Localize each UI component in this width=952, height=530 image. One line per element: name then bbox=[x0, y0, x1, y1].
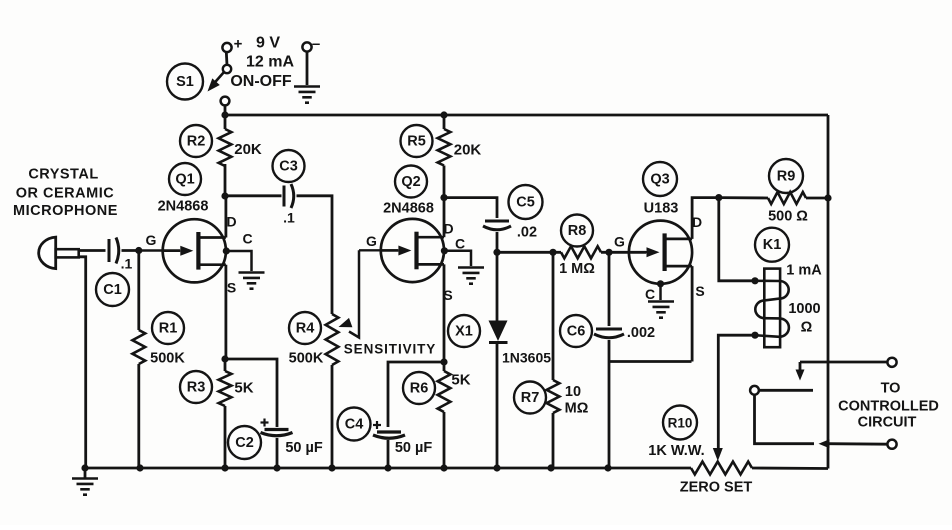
svg-text:CONTROLLED: CONTROLLED bbox=[838, 399, 939, 415]
resistor R1 bbox=[132, 251, 145, 469]
node junction R9 rail bbox=[824, 194, 831, 201]
svg-text:5K: 5K bbox=[451, 372, 470, 389]
transistor Q1 bbox=[163, 219, 226, 282]
svg-text:C: C bbox=[455, 236, 465, 252]
svg-text:ON-OFF: ON-OFF bbox=[230, 73, 292, 90]
wire detector node to X1 bbox=[496, 252, 499, 321]
relay K1 core bbox=[764, 269, 780, 348]
wire fixed contact to lower terminal bbox=[755, 395, 815, 444]
wire Q1 source bbox=[224, 265, 227, 359]
wire Q1 drain bbox=[224, 196, 227, 238]
svg-text:CRYSTAL: CRYSTAL bbox=[28, 167, 98, 183]
label C1 bbox=[96, 273, 129, 306]
resistor R3 bbox=[219, 359, 232, 468]
svg-text:.002: .002 bbox=[627, 325, 655, 341]
label K1 bbox=[755, 228, 789, 262]
svg-text:U183: U183 bbox=[644, 201, 679, 217]
node Q1 drain junction bbox=[221, 192, 228, 199]
node junction S1-rail bbox=[221, 111, 228, 118]
wire Q3 source bbox=[691, 266, 694, 361]
wire C6 to rail bbox=[608, 340, 611, 468]
node output terminal lower bbox=[887, 440, 896, 449]
relay lower contact arrow bbox=[819, 439, 830, 448]
label C5 bbox=[509, 185, 543, 219]
wire R9 node to K1 coil top bbox=[719, 198, 753, 281]
svg-text:R8: R8 bbox=[568, 223, 587, 239]
svg-text:C4: C4 bbox=[345, 417, 364, 433]
wire lower terminal lead bbox=[828, 442, 889, 445]
wiper R10 arrow bbox=[713, 448, 723, 461]
svg-text:–: – bbox=[312, 36, 320, 53]
wire - terminal to ground bbox=[306, 52, 309, 85]
label R5 bbox=[401, 125, 433, 157]
relay armature top contact bbox=[796, 362, 889, 381]
node rail junction x332 bbox=[328, 464, 335, 471]
capacitor C1 bbox=[109, 238, 119, 264]
wire C4 to rail bbox=[387, 440, 390, 468]
svg-text:.1: .1 bbox=[283, 210, 295, 226]
svg-text:1 MΩ: 1 MΩ bbox=[559, 261, 595, 277]
wire Q2 source bbox=[443, 264, 446, 362]
svg-text:TO: TO bbox=[881, 381, 901, 397]
label R6 bbox=[403, 372, 435, 404]
wire C6 top bbox=[608, 252, 611, 326]
wire C1 to gate node bbox=[122, 249, 143, 252]
svg-text:5K: 5K bbox=[234, 380, 253, 397]
label Q3 bbox=[643, 162, 677, 196]
wire right-side vertical rail bbox=[827, 115, 830, 469]
label R9 bbox=[769, 159, 803, 193]
svg-text:2N4868: 2N4868 bbox=[383, 201, 434, 217]
svg-text:C: C bbox=[242, 231, 252, 247]
svg-text:G: G bbox=[366, 233, 377, 249]
svg-text:R6: R6 bbox=[410, 381, 429, 397]
relay K1 coil bbox=[755, 281, 789, 337]
node junction Q1 source R3 bbox=[221, 355, 228, 362]
wiper R4 bbox=[339, 250, 360, 337]
svg-text:20K: 20K bbox=[234, 141, 262, 158]
resistor R6 bbox=[438, 362, 451, 468]
node K1 coil top bbox=[751, 277, 758, 284]
svg-text:R3: R3 bbox=[187, 380, 206, 396]
svg-text:R2: R2 bbox=[187, 134, 206, 150]
transistor Q3 bbox=[629, 221, 692, 284]
svg-text:500K: 500K bbox=[150, 351, 185, 367]
wire bottom ground rail left section bbox=[85, 467, 691, 470]
svg-text:C: C bbox=[645, 286, 655, 302]
node - battery terminal bbox=[302, 42, 311, 51]
label R8 bbox=[561, 215, 593, 247]
svg-text:+: + bbox=[234, 36, 243, 53]
node rail junction x140 bbox=[136, 464, 143, 471]
svg-text:Q2: Q2 bbox=[401, 174, 420, 190]
node junction C6 top bbox=[605, 249, 612, 256]
node + battery terminal bbox=[222, 43, 231, 52]
svg-text:Ω: Ω bbox=[801, 320, 813, 336]
svg-text:Q3: Q3 bbox=[650, 172, 669, 188]
resistor R5 bbox=[438, 115, 451, 198]
wire top supply rail bbox=[225, 114, 828, 117]
wire C5 to detector node bbox=[496, 232, 499, 252]
svg-text:12 mA: 12 mA bbox=[246, 54, 294, 71]
ground battery negative bbox=[294, 87, 320, 103]
wire R3 node to C2 bbox=[225, 359, 277, 427]
capacitor C3 bbox=[284, 184, 294, 208]
relay fixed contact bbox=[750, 386, 813, 395]
wire R9 right lead bbox=[806, 197, 828, 200]
node junction R7 top bbox=[549, 249, 556, 256]
capacitor C2 bbox=[261, 419, 293, 436]
label R3 bbox=[180, 371, 212, 403]
svg-text:9 V: 9 V bbox=[256, 35, 280, 52]
resistor R8 bbox=[561, 246, 601, 258]
wire mic to C1 bbox=[79, 249, 106, 252]
wire gate node to Q1 bbox=[139, 249, 180, 251]
svg-text:S1: S1 bbox=[176, 74, 194, 90]
svg-text:C2: C2 bbox=[235, 435, 254, 451]
wire detector node to R8 bbox=[497, 251, 561, 254]
svg-text:MΩ: MΩ bbox=[565, 401, 589, 417]
node Q2 case bbox=[441, 247, 448, 254]
wire C6 to Q3 source bbox=[609, 360, 692, 363]
node junction rail R5 bbox=[440, 111, 447, 118]
svg-text:20K: 20K bbox=[454, 142, 482, 159]
wire R8 to Q3 gate bbox=[601, 251, 646, 254]
label S1 bbox=[167, 64, 203, 100]
ground main bbox=[72, 468, 98, 495]
label R1 bbox=[152, 312, 184, 344]
wire bottom rail right of R10 bbox=[752, 467, 828, 470]
node rail junction x225 bbox=[221, 464, 228, 471]
transistor Q2 bbox=[381, 219, 444, 282]
switch S1 bbox=[208, 52, 232, 115]
label Q2 bbox=[395, 166, 427, 198]
svg-text:S: S bbox=[227, 280, 236, 296]
ground Q3 case bbox=[648, 302, 674, 318]
svg-text:CIRCUIT: CIRCUIT bbox=[858, 415, 917, 431]
wire Q1 case to ground bbox=[226, 251, 251, 271]
svg-text:X1: X1 bbox=[455, 324, 473, 340]
svg-text:.02: .02 bbox=[517, 225, 537, 241]
svg-text:OR CERAMIC: OR CERAMIC bbox=[16, 186, 114, 202]
svg-text:G: G bbox=[614, 234, 625, 250]
wire Q3 case to ground bbox=[659, 284, 662, 300]
node rail junction x444 bbox=[440, 464, 447, 471]
resistor R9 bbox=[768, 192, 806, 204]
resistor R2 bbox=[219, 115, 232, 196]
label X1 bbox=[448, 315, 480, 347]
label R10 bbox=[663, 406, 697, 440]
wire C3 to R4 bbox=[297, 196, 333, 314]
capacitor C4 bbox=[373, 421, 405, 438]
svg-text:10: 10 bbox=[565, 384, 581, 400]
svg-text:R4: R4 bbox=[296, 321, 315, 337]
capacitor C6 bbox=[594, 329, 624, 338]
label C6 bbox=[560, 315, 592, 347]
node rail junction x551 bbox=[547, 464, 554, 471]
capacitor C5 bbox=[483, 221, 511, 230]
node rail junction x608 bbox=[604, 464, 611, 471]
wire Q2 drain to C5 bbox=[444, 198, 497, 218]
node rail junction x497 bbox=[493, 464, 500, 471]
svg-text:.1: .1 bbox=[121, 256, 133, 272]
label C4 bbox=[338, 408, 371, 441]
ground Q1 case bbox=[239, 273, 265, 289]
svg-text:C3: C3 bbox=[279, 159, 298, 175]
wire Q3 drain bbox=[692, 198, 719, 239]
svg-text:500K: 500K bbox=[289, 351, 324, 367]
resistor R10 bbox=[691, 462, 752, 475]
node K1 coil bottom bbox=[751, 332, 758, 339]
node junction R9 left bbox=[715, 194, 722, 201]
wire C2 to rail bbox=[276, 438, 279, 468]
ground Q2 case bbox=[458, 268, 484, 284]
microphone bbox=[39, 237, 79, 269]
resistor R7 bbox=[547, 252, 560, 468]
svg-text:50 µF: 50 µF bbox=[395, 440, 433, 456]
label R7 bbox=[514, 382, 546, 414]
svg-text:R9: R9 bbox=[777, 169, 796, 185]
wire Q2 case to ground bbox=[444, 251, 471, 266]
node junction Q2 source R6 bbox=[440, 358, 447, 365]
svg-text:Q1: Q1 bbox=[175, 172, 194, 188]
svg-text:S: S bbox=[695, 283, 704, 299]
svg-text:2N4868: 2N4868 bbox=[158, 199, 209, 215]
svg-text:1N3605: 1N3605 bbox=[502, 350, 551, 366]
node detector junction bbox=[493, 249, 500, 256]
diode X1 bbox=[489, 321, 508, 343]
resistor R4 bbox=[326, 314, 339, 468]
svg-text:SENSITIVITY: SENSITIVITY bbox=[344, 342, 436, 357]
svg-text:50 µF: 50 µF bbox=[285, 440, 323, 456]
svg-text:500 Ω: 500 Ω bbox=[768, 209, 808, 225]
label R4 bbox=[289, 312, 321, 344]
wire X1 to rail bbox=[496, 343, 499, 469]
svg-text:ZERO SET: ZERO SET bbox=[680, 480, 753, 496]
svg-text:1K W.W.: 1K W.W. bbox=[648, 443, 704, 459]
node Q2 drain junction bbox=[440, 194, 447, 201]
label C3 bbox=[273, 150, 305, 182]
svg-text:1 mA: 1 mA bbox=[786, 263, 822, 279]
svg-text:R10: R10 bbox=[668, 416, 693, 431]
node rail junction x277 bbox=[273, 464, 280, 471]
svg-text:C1: C1 bbox=[103, 282, 122, 298]
wire K1 coil bottom to R10 wiper bbox=[718, 335, 755, 449]
svg-text:G: G bbox=[146, 232, 157, 248]
node output terminal upper bbox=[887, 358, 896, 367]
node gate Q1 junction bbox=[135, 247, 142, 254]
node rail junction x85 bbox=[81, 464, 88, 471]
svg-text:C5: C5 bbox=[516, 195, 535, 211]
node rail junction x388 bbox=[384, 464, 391, 471]
label Q1 bbox=[169, 163, 201, 195]
svg-text:K1: K1 bbox=[763, 237, 782, 253]
node Q3 case bbox=[657, 280, 664, 287]
svg-text:R1: R1 bbox=[159, 321, 178, 337]
svg-text:MICROPHONE: MICROPHONE bbox=[13, 203, 118, 219]
svg-text:R7: R7 bbox=[521, 390, 540, 406]
wire Q1 drain to C3 bbox=[225, 194, 282, 197]
svg-text:D: D bbox=[226, 214, 236, 230]
node Q1 case bbox=[223, 247, 230, 254]
svg-text:R5: R5 bbox=[407, 134, 426, 150]
wire R9 left lead bbox=[719, 196, 768, 199]
svg-text:1000: 1000 bbox=[788, 301, 820, 317]
wire Q2 drain bbox=[443, 198, 446, 238]
wire R6 node to C4 bbox=[388, 362, 444, 427]
label R2 bbox=[180, 125, 212, 157]
svg-text:C6: C6 bbox=[567, 324, 586, 340]
label C2 bbox=[228, 426, 261, 459]
wire mic lower lead bbox=[79, 257, 86, 468]
wire R4 wiper to Q2 gate bbox=[359, 249, 398, 251]
